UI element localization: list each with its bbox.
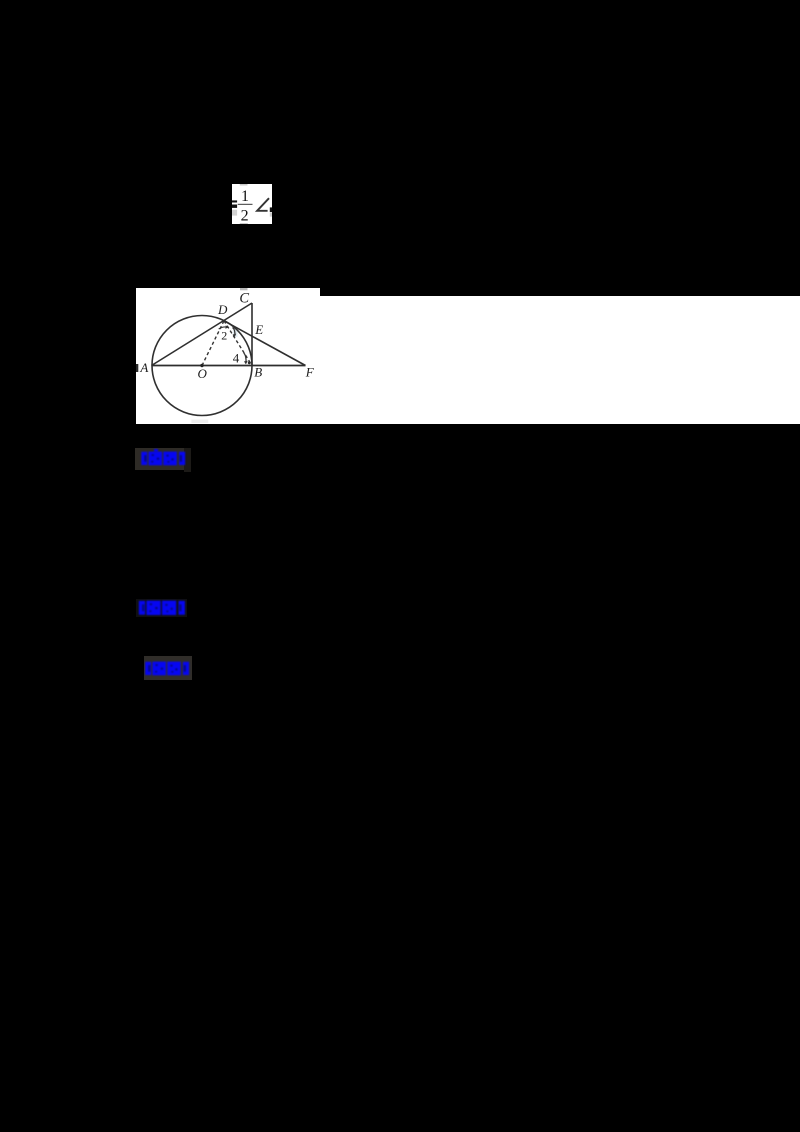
top gray bar bbox=[240, 184, 248, 186]
svg-text:A: A bbox=[139, 360, 148, 375]
blue fragment 1 spike bbox=[154, 449, 158, 452]
angle symbol bbox=[257, 198, 269, 211]
blue fragment 3 text bbox=[144, 661, 193, 677]
figure white box bbox=[136, 288, 320, 424]
svg-text:2: 2 bbox=[221, 328, 227, 342]
bottom gray smudge bbox=[191, 420, 208, 423]
right edge sliver bbox=[270, 207, 272, 212]
formula fragment box bbox=[232, 184, 272, 224]
svg-text:E: E bbox=[254, 322, 263, 337]
geometry figure svg bbox=[136, 288, 320, 424]
svg-text:C: C bbox=[239, 290, 249, 306]
jpeg chroma tint near D bbox=[233, 329, 238, 338]
blue fragment 2 gray box bbox=[136, 599, 187, 617]
dashed O-D bbox=[202, 321, 224, 366]
fraction bar bbox=[238, 204, 253, 205]
svg-text:F: F bbox=[305, 365, 315, 380]
gray bar above C bbox=[240, 288, 248, 290]
blue fragment 1 text bbox=[140, 451, 189, 467]
white band right of figure bbox=[320, 296, 800, 424]
line C-B vertical bbox=[251, 303, 253, 366]
left edge mark bbox=[136, 364, 138, 372]
blue fragment 1 gray box right extension bbox=[184, 448, 192, 473]
blue fragment 2 text bbox=[138, 600, 189, 617]
labels bbox=[139, 290, 314, 380]
gray square under equals bbox=[232, 210, 237, 216]
svg-text:2: 2 bbox=[241, 207, 249, 224]
equals sign (cut) bbox=[232, 200, 237, 202]
svg-text:1: 1 bbox=[241, 188, 249, 205]
angle arrow at B bbox=[244, 353, 246, 363]
dashed D-B bbox=[224, 321, 252, 366]
center dot O bbox=[200, 364, 203, 367]
line A-C bbox=[152, 303, 253, 366]
blue fragment 3 gray box bbox=[144, 656, 192, 680]
arrow dot near B bbox=[248, 361, 251, 364]
circle O bbox=[152, 316, 252, 416]
line A-F bbox=[152, 365, 306, 367]
svg-text:D: D bbox=[217, 302, 228, 317]
bottom gray bar bbox=[240, 223, 248, 224]
blue fragment 1 gray box bbox=[135, 448, 184, 471]
angle arc at D with arrow bbox=[233, 328, 235, 337]
svg-text:O: O bbox=[198, 366, 208, 381]
svg-text:B: B bbox=[254, 365, 262, 380]
curved arrow over 2 bbox=[219, 327, 228, 329]
line D-F bbox=[224, 321, 306, 366]
svg-text:4: 4 bbox=[233, 351, 240, 366]
